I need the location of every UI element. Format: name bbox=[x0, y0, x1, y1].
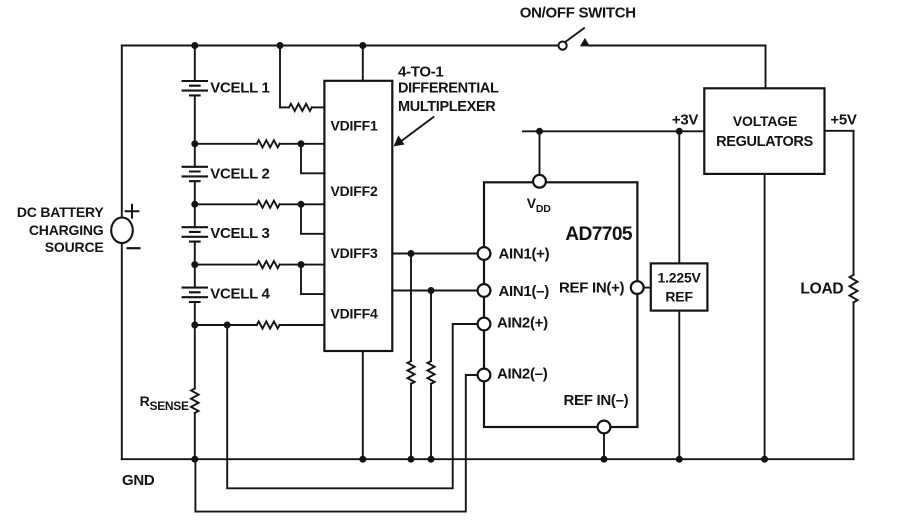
battery VCELL2 symbol bbox=[183, 167, 207, 181]
wire: row 1 drop to VDIFF2+ pin bbox=[301, 144, 324, 174]
wire: bias resistor column from AIN1(+) row bbox=[410, 254, 412, 362]
junction: GND rail / R6 bbox=[408, 456, 415, 463]
pin circle AIN2(-) on AD7705 left edge bbox=[478, 369, 491, 382]
svg-text:AD7705: AD7705 bbox=[565, 224, 633, 245]
junction: AIN1- row / bias resistor R7 bbox=[428, 287, 435, 294]
wire: row 1 into multiplexer VDIFF1- pin bbox=[280, 143, 325, 145]
wire: battery column segment above VCELL1 bbox=[194, 46, 196, 82]
wire: multiplexer output to AIN1(-) bbox=[392, 290, 477, 292]
svg-text:REF: REF bbox=[665, 288, 693, 304]
wire: stub from REF IN(+) to 1.225V REF box bbox=[644, 287, 651, 289]
junction: row 1 / VDIFF2+ drop bbox=[298, 140, 305, 147]
plus sign of charging source bbox=[126, 205, 139, 218]
wire: battery column row2 to VCELL3 to row 3 bbox=[194, 204, 196, 264]
junction: GND rail / battery column bbox=[191, 456, 198, 463]
battery VCELL3 symbol bbox=[183, 227, 207, 241]
wire: battery column row1 to VCELL2 to row 2 bbox=[194, 144, 196, 205]
wire: AIN2(-) sense loop to bottom of RSENSE bbox=[195, 375, 477, 512]
svg-text:4-TO-1: 4-TO-1 bbox=[398, 64, 443, 81]
pin circle VDD on AD7705 top edge bbox=[533, 175, 546, 188]
switch pivot circle bbox=[559, 42, 567, 50]
svg-text:REF IN(+): REF IN(+) bbox=[559, 280, 625, 297]
wire: LOAD bottom to ground rail bbox=[853, 302, 855, 459]
svg-text:AIN1(+): AIN1(+) bbox=[499, 246, 550, 263]
wire: row 4 into multiplexer VDIFF4- pin bbox=[280, 324, 325, 326]
minus sign of charging source bbox=[128, 247, 140, 249]
wire: VDIFF1+ feed from top rail bbox=[279, 46, 281, 108]
junction: row 3 / battery column bbox=[191, 261, 198, 268]
junction: GND rail / multiplexer return bbox=[359, 456, 366, 463]
pin circle AIN1(-) on AD7705 left edge bbox=[478, 284, 491, 297]
svg-text:VDIFF2: VDIFF2 bbox=[331, 183, 378, 199]
svg-text:LOAD: LOAD bbox=[800, 281, 843, 298]
svg-text:MULTIPLEXER: MULTIPLEXER bbox=[398, 99, 496, 115]
1.225V REF box U2 bbox=[651, 263, 708, 310]
junction: row 3 / VDIFF4+ drop bbox=[298, 261, 305, 268]
svg-text:VOLTAGE: VOLTAGE bbox=[733, 113, 797, 129]
junction: row 2 / VDIFF3+ drop bbox=[298, 201, 305, 208]
wire: 1.225V REF ground return bbox=[678, 311, 680, 460]
wire: left rail top segment (battery charger column) bbox=[121, 46, 123, 218]
pin circle AIN1(+) on AD7705 left edge bbox=[478, 247, 491, 260]
voltage regulators box U3 bbox=[704, 88, 824, 174]
junction: row 4 / battery column bbox=[191, 322, 198, 329]
wire: multiplexer output to AIN1(+) bbox=[392, 253, 477, 255]
resistor R7 (AIN1- bias, vertical zigzag) bbox=[427, 361, 434, 384]
junction: GND rail / R7 bbox=[428, 456, 435, 463]
svg-text:DC BATTERY: DC BATTERY bbox=[17, 204, 105, 220]
svg-text:VCELL 2: VCELL 2 bbox=[210, 165, 269, 182]
wire: row 2 into multiplexer VDIFF2- pin bbox=[280, 203, 325, 205]
svg-text:1.225V: 1.225V bbox=[658, 270, 702, 286]
wire: row 2 drop to VDIFF3+ pin bbox=[301, 204, 324, 234]
wire: junction row 2 (cell2/cell3) to resistor bbox=[195, 203, 257, 205]
wire: REF IN(-) to ground rail bbox=[603, 433, 605, 459]
junction: top rail / battery column bbox=[191, 42, 198, 49]
pin circle REF IN(+) on AD7705 right edge bbox=[631, 281, 644, 294]
junction: AIN1+ row / bias resistor R6 bbox=[408, 250, 415, 257]
resistor R5 (row 4 series) bbox=[257, 321, 280, 328]
resistor LOAD (vertical zigzag) bbox=[850, 275, 858, 303]
wire: top rail from left rail to switch bbox=[122, 45, 558, 47]
wire: left rail bottom segment bbox=[121, 243, 123, 459]
wire: multiplexer ground return bbox=[362, 351, 364, 459]
svg-text:ON/OFF SWITCH: ON/OFF SWITCH bbox=[520, 4, 636, 21]
svg-text:REGULATORS: REGULATORS bbox=[716, 134, 813, 150]
svg-text:VDIFF4: VDIFF4 bbox=[331, 305, 378, 321]
junction: row 4 / AIN2+ sense tap bbox=[224, 322, 231, 329]
svg-text:REF IN(–): REF IN(–) bbox=[564, 392, 629, 409]
wire: row 3 drop to VDIFF4+ pin bbox=[301, 265, 324, 295]
switch lever arm bbox=[566, 28, 584, 41]
resistor RSENSE (vertical zigzag) bbox=[191, 389, 199, 414]
leader arrow to multiplexer box bbox=[394, 117, 435, 147]
wire: AIN2(+) sense loop to top of RSENSE bbox=[227, 324, 477, 488]
resistor R3 (row 2 series) bbox=[257, 201, 280, 208]
wire: row 3 into multiplexer VDIFF3- pin bbox=[280, 264, 325, 266]
wire: +5V stub from regulator right side bbox=[825, 130, 854, 132]
wire: GND rail bbox=[122, 458, 854, 460]
junction: top rail / VDIFF1+ feed bbox=[277, 42, 284, 49]
4-to-1 differential multiplexer box U4 bbox=[324, 81, 392, 351]
wire: multiplexer top feed from top rail bbox=[362, 46, 364, 81]
wire: bias resistor column from AIN1(-) row bbox=[430, 291, 432, 362]
svg-text:CHARGING: CHARGING bbox=[29, 222, 104, 238]
pin circle REF IN(-) on AD7705 bottom edge bbox=[598, 421, 611, 434]
pin circle AIN2(+) on AD7705 left edge bbox=[478, 318, 491, 331]
junction: GND rail / 1.225V REF return bbox=[676, 456, 683, 463]
svg-text:AIN1(–): AIN1(–) bbox=[499, 283, 550, 300]
wire: R6 bottom to ground rail bbox=[410, 384, 412, 459]
svg-text:+3V: +3V bbox=[672, 111, 699, 128]
svg-text:VDD: VDD bbox=[527, 195, 552, 215]
svg-text:GND: GND bbox=[122, 472, 155, 489]
wire: +5V column down to LOAD bbox=[853, 131, 855, 275]
wire: RSENSE bottom to ground rail bbox=[194, 413, 196, 459]
AD7705 box U1 bbox=[484, 182, 637, 427]
battery VCELL4 symbol bbox=[183, 288, 207, 302]
junction: row 2 / battery column bbox=[191, 201, 198, 208]
svg-text:DIFFERENTIAL: DIFFERENTIAL bbox=[398, 81, 499, 97]
svg-text:VCELL 4: VCELL 4 bbox=[210, 286, 270, 303]
battery VCELL1 symbol bbox=[183, 81, 207, 95]
switch contact arrowhead bbox=[580, 38, 590, 47]
resistor R6 (AIN1+ bias, vertical zigzag) bbox=[407, 361, 414, 384]
wire: top rail from switch to voltage regulators feed bbox=[589, 45, 766, 47]
svg-text:VCELL 3: VCELL 3 bbox=[210, 225, 269, 242]
svg-text:SOURCE: SOURCE bbox=[45, 239, 104, 255]
wire: battery column VCELL1 to junction row 1 bbox=[194, 95, 196, 143]
resistor R1 (VDIFF1+ series) bbox=[289, 104, 312, 111]
svg-text:AIN2(+): AIN2(+) bbox=[497, 314, 548, 331]
wire: +3V rail from stub to regulator left side bbox=[523, 130, 704, 132]
wire: vertical feed into voltage regulators box bbox=[765, 46, 767, 89]
svg-text:VDIFF1: VDIFF1 bbox=[331, 118, 378, 134]
wire: junction row 4 (cell4/RSENSE) to resistor bbox=[195, 324, 257, 326]
wire: battery column row4 down to RSENSE bbox=[194, 325, 196, 389]
wire: R7 bottom to ground rail bbox=[430, 384, 432, 459]
junction: row 1 / battery column bbox=[191, 140, 198, 147]
junction: GND rail / REF IN(-) bbox=[601, 456, 608, 463]
junction: GND rail / regulator return bbox=[761, 456, 768, 463]
junction: top rail / multiplexer feed bbox=[359, 42, 366, 49]
junction: +3V rail / 1.225V REF feed bbox=[676, 128, 683, 135]
wire: 1.225V REF feed from +3V rail bbox=[678, 131, 680, 263]
DC battery charging source circle bbox=[111, 218, 133, 244]
svg-text:VCELL 1: VCELL 1 bbox=[210, 80, 269, 97]
wire: regulator ground return vertical bbox=[764, 174, 766, 459]
wire: junction row 3 (cell3/cell4) to resistor bbox=[195, 264, 257, 266]
wire: battery column row3 to VCELL4 to row 4 bbox=[194, 265, 196, 325]
wire: resistor R1 to multiplexer bbox=[312, 106, 325, 108]
wire: VDD drop from +3V rail bbox=[539, 131, 541, 175]
svg-text:+5V: +5V bbox=[830, 111, 857, 128]
resistor R2 (row 1 series) bbox=[257, 140, 280, 147]
junction: +3V rail / VDD drop bbox=[536, 128, 543, 135]
svg-text:RSENSE: RSENSE bbox=[140, 393, 189, 413]
svg-text:AIN2(–): AIN2(–) bbox=[497, 366, 548, 383]
svg-text:VDIFF3: VDIFF3 bbox=[331, 245, 378, 261]
resistor R4 (row 3 series) bbox=[257, 261, 280, 268]
wire: junction row 1 (cell1/cell2) to resistor bbox=[195, 143, 257, 145]
wire: VDIFF1+ stub into resistor bbox=[280, 106, 289, 108]
